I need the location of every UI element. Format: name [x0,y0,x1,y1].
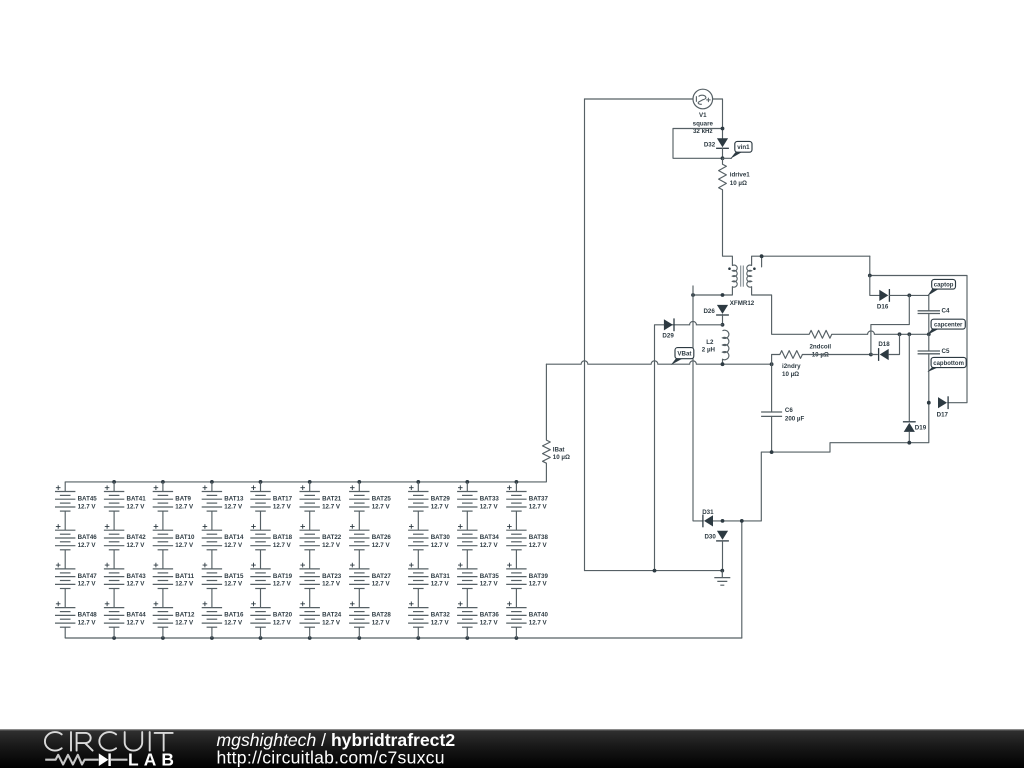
wire D32 cathode to node [722,148,724,158]
voltage source V1 [693,89,713,109]
svg-text:XFMR12: XFMR12 [730,300,755,307]
wire primary bottom lead [693,287,732,295]
wire battery column bottom lead [113,627,115,638]
svg-text:12.7 V: 12.7 V [78,581,97,588]
svg-text:lBat: lBat [553,447,565,454]
svg-text:BAT14: BAT14 [224,534,244,541]
battery BAT10 [162,511,164,530]
node battery top rail [515,480,519,484]
wire captop to C4 [928,295,930,310]
svg-text:http://circuitlab.com/c7suxcu: http://circuitlab.com/c7suxcu [217,748,445,768]
svg-text:BAT27: BAT27 [372,573,392,580]
svg-text:12.7 V: 12.7 V [175,619,194,626]
polarity dot primary [728,267,731,270]
wire V1 left lead to left rail [585,98,694,100]
svg-text:12.7 V: 12.7 V [480,619,499,626]
svg-text:12.7 V: 12.7 V [529,542,548,549]
wire S path D16 to D18 junction [871,295,909,354]
battery BAT17 [260,482,262,492]
svg-text:2ndcoil: 2ndcoil [809,344,831,351]
node D19 top [907,332,911,336]
svg-text:12.7 V: 12.7 V [224,542,243,549]
battery BAT43 [113,550,115,569]
wire vin1 stub [723,157,732,159]
wire D19 top lead [908,334,910,421]
diode D30 [717,531,728,540]
svg-text:200 µF: 200 µF [785,415,805,422]
svg-text:BAT46: BAT46 [78,534,98,541]
svg-text:idrive1: idrive1 [730,171,751,178]
wire node vin1 to idrive1 [722,158,724,164]
node VBat/i2ndry/C6 [770,362,774,366]
battery BAT25 [358,482,360,492]
battery BAT31 [417,550,419,569]
transformer core [740,266,742,287]
battery BAT9 [162,482,164,492]
battery BAT33 [466,482,468,492]
wire V1 right lead [713,99,723,138]
battery BAT38 [515,511,517,530]
svg-text:D30: D30 [704,534,716,541]
svg-text:C5: C5 [942,348,950,355]
node D16 branch [868,274,872,278]
svg-text:BAT20: BAT20 [273,612,293,619]
svg-text:BAT25: BAT25 [372,495,392,502]
node battery bottom rail [515,636,519,640]
svg-text:D26: D26 [703,308,715,315]
svg-text:BAT13: BAT13 [224,495,244,502]
footer bar [0,729,1024,768]
svg-text:BAT37: BAT37 [529,495,549,502]
flag VBat [671,358,682,365]
node battery bottom rail [161,636,165,640]
svg-text:capbottom: capbottom [933,361,964,367]
svg-text:12.7 V: 12.7 V [529,581,548,588]
svg-text:12.7 V: 12.7 V [431,503,450,510]
svg-text:12.7 V: 12.7 V [224,503,243,510]
svg-text:12.7 V: 12.7 V [529,619,548,626]
battery BAT19 [260,550,262,569]
wire idrive1 to transformer primary [723,190,733,266]
capacitor C6 [761,411,782,413]
capacitor C4 [918,310,940,312]
node battery bottom rail [416,636,420,640]
svg-text:BAT36: BAT36 [480,612,500,619]
battery BAT24 [309,589,311,608]
diode D26 [717,305,728,314]
battery BAT14 [211,511,213,530]
svg-text:12.7 V: 12.7 V [224,619,243,626]
wire D30 to ground [722,541,724,571]
node left branch [691,293,695,297]
wire C5 bottom to D17 [928,354,930,403]
diode D17 [938,397,947,408]
svg-text:12.7 V: 12.7 V [78,542,97,549]
wire lBat to battery top rail [516,463,546,482]
node battery top rail [112,480,116,484]
svg-text:i2ndry: i2ndry [782,363,801,370]
svg-text:D29: D29 [662,333,674,340]
battery BAT48 [64,589,66,608]
node battery bottom rail [112,636,116,640]
wire VBat rail [546,361,771,364]
svg-text:2 µH: 2 µH [702,346,716,353]
wire D29 anode row [664,321,723,324]
wire battery column bottom lead [515,627,517,638]
battery BAT36 [466,589,468,608]
node battery bottom rail [357,636,361,640]
svg-text:12.7 V: 12.7 V [431,542,450,549]
svg-text:BAT38: BAT38 [529,534,549,541]
wire stub up at left branch [692,286,694,295]
node D26 anode [721,293,725,297]
wire D16 anode lead [870,276,880,296]
svg-text:captop: captop [934,283,954,289]
diode D31 [704,515,713,526]
svg-text:12.7 V: 12.7 V [273,619,292,626]
node battery top rail [308,480,312,484]
svg-text:LAB: LAB [128,750,179,768]
battery BAT26 [358,511,360,530]
diode D18 [880,349,889,360]
svg-text:12.7 V: 12.7 V [127,619,146,626]
battery BAT34 [466,511,468,530]
transformer XFMR12 secondary winding [747,265,752,287]
wire D29 anode lead [655,325,664,571]
node D17 anode [927,401,931,405]
wire top right rail [870,276,967,403]
svg-text:BAT11: BAT11 [175,573,194,580]
battery BAT47 [64,550,66,569]
battery BAT11 [162,550,164,569]
svg-text:BAT45: BAT45 [78,495,98,502]
svg-text:BAT12: BAT12 [175,612,195,619]
battery BAT13 [211,482,213,492]
wire battery column bottom lead [260,627,262,638]
wire battery top rail [65,481,516,483]
svg-text:D19: D19 [915,425,927,432]
svg-text:BAT33: BAT33 [480,495,500,502]
svg-text:BAT9: BAT9 [175,495,191,502]
wire battery column bottom lead [466,627,468,638]
svg-text:12.7 V: 12.7 V [322,619,341,626]
flag captop [927,288,938,296]
battery BAT42 [113,511,115,530]
flag vin1 [730,152,741,159]
svg-text:BAT47: BAT47 [78,573,98,580]
battery BAT39 [515,550,517,569]
flag capbottom [927,367,938,372]
svg-text:12.7 V: 12.7 V [175,542,194,549]
svg-text:BAT43: BAT43 [127,573,147,580]
diode D29 [664,319,673,330]
svg-text:BAT48: BAT48 [78,612,98,619]
node D31/D30 [721,519,725,523]
resistor 2ndcoil [809,330,832,338]
svg-text:BAT40: BAT40 [529,612,549,619]
svg-text:12.7 V: 12.7 V [480,542,499,549]
svg-text:12.7 V: 12.7 V [480,503,499,510]
wire L2 bottom lead [722,359,724,364]
svg-text:D18: D18 [878,341,890,348]
battery BAT21 [309,482,311,492]
battery BAT22 [309,511,311,530]
svg-text:12.7 V: 12.7 V [372,503,391,510]
battery BAT41 [113,482,115,492]
svg-text:12.7 V: 12.7 V [224,581,243,588]
svg-text:12.7 V: 12.7 V [529,503,548,510]
svg-text:BAT34: BAT34 [480,534,500,541]
svg-text:12.7 V: 12.7 V [273,503,292,510]
battery BAT28 [358,589,360,608]
battery BAT16 [211,589,213,608]
resistor lBat [543,440,551,463]
svg-text:D31: D31 [702,509,714,516]
wire i2ndry left lead [772,355,780,365]
node capcenter [927,332,931,336]
svg-text:D16: D16 [877,304,889,311]
svg-text:BAT35: BAT35 [480,573,500,580]
node D32 top junction [721,127,725,131]
wire D31 row [713,520,761,522]
node D19 bottom [907,441,911,445]
wire D19 bottom lead [908,432,910,443]
node D29 to ground rail [653,569,657,573]
svg-text:BAT41: BAT41 [127,495,147,502]
svg-text:BAT42: BAT42 [127,534,147,541]
transformer XFMR12 primary winding [732,265,737,287]
wire D26 cathode to node [722,315,724,325]
logo resistor-diode squiggle [45,755,98,765]
wire D18 cathode lead [871,354,878,356]
battery BAT18 [260,511,262,530]
battery BAT37 [515,482,517,492]
battery BAT20 [260,589,262,608]
battery BAT46 [64,511,66,530]
wire secondary top lead [752,256,870,265]
wire D31 row up right [761,403,929,521]
wire battery bottom rail up to D31 row [741,521,743,638]
svg-text:L2: L2 [706,339,714,346]
svg-text:12.7 V: 12.7 V [127,503,146,510]
diode D32 [717,138,728,147]
wire secondary bottom lead [752,287,810,335]
svg-text:BAT10: BAT10 [175,534,195,541]
node battery bottom rail [259,636,263,640]
svg-text:12.7 V: 12.7 V [78,619,97,626]
svg-text:square: square [693,121,714,128]
battery BAT35 [466,550,468,569]
resistor i2ndry [780,351,803,359]
inductor L2 [723,330,729,360]
svg-text:12.7 V: 12.7 V [322,581,341,588]
wire ground rail horizontal [585,570,723,572]
svg-text:12.7 V: 12.7 V [322,542,341,549]
node captop/Spath [907,294,911,298]
node battery top rail [357,480,361,484]
node D18 return [898,332,902,336]
diode D19 [904,423,915,432]
node C6 bottom [770,450,774,454]
wire C4 bottom to capcenter [928,314,930,335]
battery BAT45 [64,482,66,492]
node D26/D29/L2 [721,323,725,327]
svg-text:BAT17: BAT17 [273,495,293,502]
wire left rail down [584,99,586,571]
node i2ndry/D18 [869,353,873,357]
svg-text:D17: D17 [937,411,949,418]
svg-text:BAT39: BAT39 [529,573,549,580]
svg-text:BAT28: BAT28 [372,612,392,619]
wire battery column bottom lead [64,627,66,638]
svg-text:C6: C6 [785,407,793,414]
svg-text:BAT26: BAT26 [372,534,392,541]
node battery top rail [416,480,420,484]
battery BAT23 [309,550,311,569]
node stub junction [760,254,764,258]
svg-text:V1: V1 [699,112,707,119]
svg-text:BAT15: BAT15 [224,573,244,580]
node battery bottom rail [465,636,469,640]
svg-text:10 µΩ: 10 µΩ [812,352,829,359]
battery BAT12 [162,589,164,608]
svg-text:12.7 V: 12.7 V [127,581,146,588]
capacitor C5 [918,350,940,352]
node battery bottom rail [210,636,214,640]
wire battery column bottom lead [162,627,164,638]
svg-text:VBat: VBat [677,351,691,358]
node battery top rail [210,480,214,484]
battery BAT40 [515,589,517,608]
wire battery column bottom lead [309,627,311,638]
svg-text:12.7 V: 12.7 V [322,503,341,510]
svg-text:12.7 V: 12.7 V [273,581,292,588]
svg-text:capcenter: capcenter [934,322,963,328]
battery BAT32 [417,589,419,608]
wire i2ndry right lead [802,354,871,356]
wire D16 cathode to captop [889,294,928,296]
svg-text:12.7 V: 12.7 V [372,619,391,626]
svg-text:BAT18: BAT18 [273,534,293,541]
resistor idrive1 [719,164,727,190]
polarity dot secondary [753,267,756,270]
svg-text:10 µΩ: 10 µΩ [553,454,570,461]
wire C6 bottom lead [771,416,773,452]
svg-text:C4: C4 [942,307,950,314]
svg-text:32 kHz: 32 kHz [693,128,713,135]
svg-text:12.7 V: 12.7 V [175,503,194,510]
node vin1 [721,156,725,160]
wire C6 top lead [771,364,773,412]
node battery top rail [259,480,263,484]
battery BAT27 [358,550,360,569]
svg-text:BAT21: BAT21 [322,495,342,502]
svg-text:BAT31: BAT31 [431,573,451,580]
node D31 row to battery rail [740,519,744,523]
svg-text:BAT32: BAT32 [431,612,451,619]
battery BAT29 [417,482,419,492]
wire stub on secondary top net [761,256,763,267]
svg-text:BAT23: BAT23 [322,573,342,580]
wire battery column bottom lead [211,627,213,638]
CircuitLab logo text CIRCUIT [45,732,173,751]
node battery top rail [465,480,469,484]
svg-text:BAT22: BAT22 [322,534,342,541]
svg-text:BAT30: BAT30 [431,534,451,541]
battery BAT30 [417,511,419,530]
diode D16 [879,290,888,301]
svg-text:10 µΩ: 10 µΩ [782,371,799,378]
svg-text:BAT29: BAT29 [431,495,451,502]
svg-text:12.7 V: 12.7 V [78,503,97,510]
wire battery column bottom lead [417,627,419,638]
node L2 on VBat rail [721,362,725,366]
node battery bottom rail [308,636,312,640]
wire battery column bottom lead [358,627,360,638]
svg-text:vin1: vin1 [737,144,750,151]
wire battery bottom rail [65,637,742,639]
node ground [720,569,724,573]
svg-text:D32: D32 [704,141,716,148]
battery BAT44 [113,589,115,608]
svg-text:12.7 V: 12.7 V [372,542,391,549]
svg-text:BAT24: BAT24 [322,612,342,619]
svg-text:12.7 V: 12.7 V [431,619,450,626]
svg-text:12.7 V: 12.7 V [372,581,391,588]
wire left branch down to D31 [693,295,703,521]
wire VBat rail down to lBat [545,364,547,440]
wire D32 bypass loop [673,129,723,159]
wire D18 anode return [889,334,900,354]
svg-text:BAT16: BAT16 [224,612,244,619]
battery BAT15 [211,550,213,569]
node battery top rail [161,480,165,484]
flag capcenter [927,328,938,335]
svg-text:BAT44: BAT44 [127,612,147,619]
svg-text:12.7 V: 12.7 V [175,581,194,588]
svg-text:12.7 V: 12.7 V [273,542,292,549]
svg-text:12.7 V: 12.7 V [127,542,146,549]
svg-text:12.7 V: 12.7 V [431,581,450,588]
ground [714,571,730,586]
wire secondary top to right rail corner [869,256,871,275]
wire capcenter to C5 [928,334,930,351]
svg-text:12.7 V: 12.7 V [480,581,499,588]
wire 2ndcoil to capcenter [832,331,929,334]
svg-text:10 µΩ: 10 µΩ [730,180,747,187]
svg-text:BAT19: BAT19 [273,573,293,580]
